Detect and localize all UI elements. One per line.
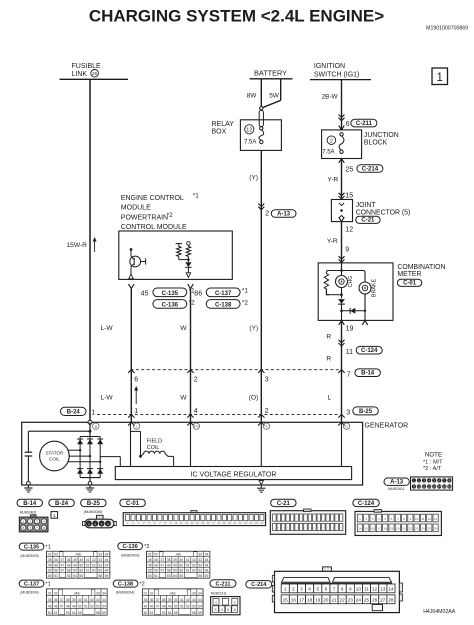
connector drawing A-13 (411, 477, 453, 490)
svg-text:25: 25 (364, 598, 370, 603)
ground rectifier (88, 481, 92, 485)
svg-text:46: 46 (150, 604, 154, 608)
svg-text:C-124: C-124 (361, 348, 378, 354)
stator coil (40, 441, 70, 471)
svg-text:*2: *2 (167, 212, 173, 219)
svg-text:4: 4 (194, 408, 198, 415)
svg-text:MU802611: MU802611 (388, 487, 404, 491)
svg-text:58: 58 (167, 569, 171, 573)
svg-text:50: 50 (144, 611, 148, 615)
svg-text:BATTERY: BATTERY (254, 69, 287, 78)
svg-text:5: 5 (316, 587, 319, 592)
svg-text:35: 35 (48, 558, 52, 562)
svg-text:55: 55 (78, 611, 82, 615)
svg-text:JUNCTION: JUNCTION (364, 132, 399, 139)
svg-text:C-211: C-211 (356, 121, 373, 127)
svg-text:47: 47 (60, 604, 64, 608)
svg-text:35: 35 (144, 598, 148, 602)
svg-text:36: 36 (154, 558, 158, 562)
connector drawing B-24 ring terminal (51, 512, 58, 519)
svg-text:G: G (345, 425, 348, 429)
page number box 1 (432, 68, 448, 85)
BRAKE warning lamp (364, 276, 366, 282)
svg-text:33: 33 (98, 553, 102, 557)
svg-text:*2: *2 (139, 582, 144, 588)
svg-text:JAE: JAE (175, 553, 182, 557)
svg-text:17: 17 (377, 527, 381, 531)
svg-text:ENGINE CONTROL: ENGINE CONTROL (121, 195, 184, 202)
svg-text:59: 59 (73, 569, 77, 573)
svg-text:*1: *1 (45, 582, 50, 588)
svg-text:59: 59 (205, 574, 209, 578)
svg-text:51: 51 (186, 563, 190, 567)
svg-text:13: 13 (380, 587, 386, 592)
svg-text:(Y): (Y) (249, 325, 258, 332)
svg-text:12: 12 (372, 587, 378, 592)
svg-text:15W-R: 15W-R (67, 242, 88, 249)
svg-text:22: 22 (409, 527, 413, 531)
terminal letters (93, 423, 99, 429)
svg-text:C-136: C-136 (162, 302, 179, 308)
svg-text:49: 49 (168, 604, 172, 608)
direction arrow up on L-W wire (135, 388, 137, 405)
svg-text:2B-W: 2B-W (322, 94, 339, 101)
svg-text:02: 02 (154, 553, 158, 557)
svg-text:FR: FR (194, 425, 199, 429)
svg-text:B-25: B-25 (359, 409, 373, 415)
ECM pin 45 exit terminal (129, 274, 134, 279)
svg-text:57: 57 (60, 569, 64, 573)
svg-text:41: 41 (84, 598, 88, 602)
svg-text:METER: METER (397, 271, 421, 278)
svg-text:49: 49 (73, 563, 77, 567)
svg-text:C-21: C-21 (361, 218, 375, 224)
svg-text:53: 53 (162, 611, 166, 615)
svg-text:13: 13 (434, 517, 438, 521)
svg-text:53: 53 (67, 574, 71, 578)
svg-text:01: 01 (144, 591, 148, 595)
svg-text:86: 86 (194, 290, 202, 297)
svg-text:51: 51 (154, 574, 158, 578)
svg-text:55: 55 (179, 574, 183, 578)
svg-text:15: 15 (345, 193, 353, 200)
svg-text:49: 49 (173, 563, 177, 567)
svg-text:61: 61 (86, 569, 90, 573)
svg-text:C-137: C-137 (215, 291, 232, 297)
svg-text:49: 49 (72, 604, 76, 608)
svg-text:JAE: JAE (74, 591, 81, 595)
direction arrow up on 15W-R wire (94, 239, 96, 253)
svg-text:56: 56 (54, 569, 58, 573)
svg-text:36: 36 (150, 598, 154, 602)
svg-text:41: 41 (186, 558, 190, 562)
svg-text:(O): (O) (249, 395, 259, 402)
svg-text:11: 11 (364, 587, 369, 592)
svg-text:21: 21 (402, 527, 406, 531)
svg-text:JOINT: JOINT (356, 202, 377, 209)
svg-text:*2: *2 (144, 544, 149, 550)
svg-text:53: 53 (98, 563, 102, 567)
svg-text:C-135: C-135 (162, 291, 179, 297)
svg-text:C-138: C-138 (118, 581, 133, 587)
svg-text:34: 34 (102, 591, 106, 595)
svg-text:64: 64 (105, 569, 109, 573)
svg-text:54: 54 (102, 604, 106, 608)
connector label C-138 (113, 580, 138, 587)
svg-text:8W: 8W (247, 93, 258, 100)
svg-text:46: 46 (154, 563, 158, 567)
ground capacitor (27, 481, 31, 485)
pin 25 connector C-214 (339, 159, 345, 164)
svg-text:24: 24 (421, 527, 425, 531)
svg-text:4: 4 (308, 587, 311, 592)
junction block (322, 130, 362, 159)
connector drawing C-136 (147, 551, 210, 578)
svg-text:21: 21 (331, 598, 337, 603)
svg-text:52: 52 (92, 563, 96, 567)
wire relay box to generator S terminal (260, 150, 262, 422)
svg-text:35: 35 (148, 558, 152, 562)
svg-text:COMBINATION: COMBINATION (397, 264, 445, 271)
svg-text:47: 47 (156, 604, 160, 608)
svg-text:36: 36 (54, 558, 58, 562)
svg-text:37: 37 (160, 558, 164, 562)
svg-text:STATOR: STATOR (45, 451, 64, 456)
svg-text:B-14: B-14 (361, 371, 375, 377)
svg-text:51: 51 (86, 563, 90, 567)
relay box (240, 120, 281, 151)
svg-text:1: 1 (215, 601, 217, 605)
svg-text:63: 63 (98, 569, 102, 573)
svg-text:33: 33 (192, 591, 196, 595)
svg-text:33: 33 (198, 553, 202, 557)
svg-text:2: 2 (330, 139, 333, 145)
svg-text:01: 01 (48, 553, 52, 557)
svg-text:53: 53 (167, 574, 171, 578)
resistor pair in ECM (176, 243, 182, 245)
connector drawing C-211 (211, 597, 240, 615)
svg-text:54: 54 (173, 574, 177, 578)
IC voltage regulator box (115, 467, 351, 480)
svg-text:45: 45 (144, 604, 148, 608)
svg-text:5: 5 (227, 608, 229, 612)
svg-text:CONTROL MODULE: CONTROL MODULE (121, 224, 187, 231)
svg-text:10: 10 (417, 485, 421, 489)
svg-text:54: 54 (205, 563, 209, 567)
connector drawing C-138 (143, 589, 203, 615)
connector label B-25 (81, 499, 107, 506)
svg-text:NOTE: NOTE (425, 451, 442, 458)
ECM pin 86 exit terminal (186, 273, 191, 278)
svg-text:53: 53 (192, 604, 196, 608)
svg-text:B-24: B-24 (55, 501, 69, 507)
svg-text:02: 02 (54, 591, 58, 595)
svg-text:37: 37 (156, 598, 160, 602)
svg-text:37: 37 (60, 598, 64, 602)
connector drawing B-25 (97, 515, 104, 519)
svg-text:44: 44 (205, 558, 209, 562)
svg-text:47: 47 (160, 563, 164, 567)
dashed harness line upper (131, 369, 342, 371)
svg-text:58: 58 (198, 574, 202, 578)
pin 12 (339, 217, 345, 222)
svg-text:54: 54 (73, 574, 77, 578)
svg-text:2: 2 (265, 210, 269, 217)
svg-text:A-13: A-13 (277, 212, 291, 218)
svg-text:(MU803004): (MU803004) (20, 590, 38, 594)
svg-text:10: 10 (356, 587, 362, 592)
svg-text:42: 42 (186, 598, 190, 602)
svg-text:3: 3 (215, 608, 217, 612)
svg-text:SWITCH (IG1): SWITCH (IG1) (314, 71, 360, 78)
svg-text:40: 40 (79, 558, 83, 562)
svg-text:19: 19 (346, 325, 354, 332)
wire meter to generator L terminal (341, 320, 343, 422)
connector drawing C-214 (323, 567, 332, 572)
fuse 2 (7.5A) in junction block (327, 136, 336, 145)
svg-text:25: 25 (346, 167, 354, 174)
svg-text:59: 59 (105, 574, 109, 578)
connector drawing C-01 (191, 511, 197, 513)
diode in meter (horizontal, pointing left) (342, 310, 366, 312)
svg-text:23: 23 (415, 527, 419, 531)
svg-text:14: 14 (438, 485, 442, 489)
svg-text:43: 43 (198, 558, 202, 562)
svg-text:1: 1 (91, 409, 95, 416)
svg-text:MODULE: MODULE (121, 205, 151, 212)
svg-text:50: 50 (79, 563, 83, 567)
svg-text:51: 51 (180, 604, 184, 608)
svg-text:6: 6 (234, 608, 236, 612)
svg-text:C-211: C-211 (216, 581, 231, 587)
svg-text:40: 40 (78, 598, 82, 602)
wire FR terminal to regulator (190, 422, 192, 466)
svg-text:C-135: C-135 (24, 544, 39, 550)
svg-text:IGNITION: IGNITION (314, 63, 345, 70)
svg-text:59: 59 (102, 611, 106, 615)
svg-text:CHG: CHG (348, 276, 354, 288)
svg-text:18: 18 (307, 598, 313, 603)
svg-text:24: 24 (356, 598, 362, 603)
svg-text:63: 63 (198, 569, 202, 573)
svg-text:Y-R: Y-R (327, 238, 338, 245)
svg-text:18: 18 (384, 527, 388, 531)
pin 6 connector C-211 (339, 115, 345, 118)
svg-text:43: 43 (98, 558, 102, 562)
ECM box (119, 231, 233, 279)
svg-text:15: 15 (443, 485, 447, 489)
wire ECM 86 to generator FR terminal (190, 289, 192, 423)
svg-text:55: 55 (79, 574, 83, 578)
svg-text:MU801311: MU801311 (211, 591, 227, 595)
svg-text:CONNECTOR (5): CONNECTOR (5) (356, 210, 411, 217)
capacitor branch wire (28, 430, 90, 432)
svg-text:36: 36 (54, 598, 58, 602)
svg-text:(MU803046): (MU803046) (84, 510, 103, 514)
field coil (130, 422, 132, 466)
svg-text:58: 58 (192, 611, 196, 615)
svg-text:13: 13 (433, 485, 437, 489)
wire fusible-link to generator B terminal (89, 79, 91, 422)
battery bus bar (250, 78, 293, 80)
svg-text:1: 1 (53, 513, 56, 519)
svg-text:W: W (180, 325, 187, 332)
svg-text:52: 52 (90, 604, 94, 608)
svg-text:28: 28 (388, 598, 394, 603)
regulator ground (260, 480, 262, 481)
svg-text:2: 2 (194, 377, 198, 384)
svg-text:38: 38 (67, 558, 71, 562)
svg-text:3: 3 (300, 587, 303, 592)
wire ignition to junction block (341, 80, 343, 130)
svg-text:POWERTRAIN: POWERTRAIN (121, 215, 168, 222)
svg-text:10: 10 (415, 517, 419, 521)
svg-text:45: 45 (48, 563, 52, 567)
svg-text:C-21: C-21 (277, 501, 291, 507)
svg-text:64: 64 (205, 569, 209, 573)
svg-text:26: 26 (92, 71, 97, 76)
svg-text:W: W (180, 395, 187, 402)
crossing 11 (C-124) (339, 340, 345, 343)
svg-text:44: 44 (198, 598, 202, 602)
svg-text:6: 6 (134, 377, 138, 384)
svg-text:11: 11 (423, 485, 426, 489)
svg-text:COIL: COIL (49, 457, 60, 462)
svg-text:C-138: C-138 (215, 302, 232, 308)
connector label B-14 (17, 499, 43, 506)
svg-text:L: L (328, 395, 332, 402)
svg-text:9: 9 (345, 246, 349, 253)
svg-text:47: 47 (60, 563, 64, 567)
svg-text:5W: 5W (269, 93, 280, 100)
svg-text:45: 45 (48, 604, 52, 608)
ignition bus bar (310, 79, 371, 81)
svg-text:BLOCK: BLOCK (364, 140, 388, 147)
connector label B-24 (49, 499, 75, 506)
svg-text:7.5A: 7.5A (322, 150, 334, 156)
svg-text:1: 1 (436, 72, 442, 84)
svg-text:60: 60 (179, 569, 183, 573)
svg-text:46: 46 (54, 604, 58, 608)
svg-text:41: 41 (86, 558, 90, 562)
svg-text:62: 62 (192, 569, 196, 573)
svg-text:JAE: JAE (75, 553, 82, 557)
svg-text:57: 57 (160, 569, 164, 573)
svg-text:CHARGING SYSTEM <2.4L ENGINE>: CHARGING SYSTEM <2.4L ENGINE> (89, 7, 384, 26)
terminal B junction (88, 420, 92, 424)
svg-text:53: 53 (96, 604, 100, 608)
svg-text:54: 54 (72, 611, 76, 615)
svg-text:*2 : A/T: *2 : A/T (423, 466, 442, 472)
svg-text:7.5A: 7.5A (244, 139, 256, 145)
svg-text:6: 6 (346, 121, 350, 128)
svg-text:COIL: COIL (147, 445, 160, 451)
wire 5W (280, 79, 282, 101)
svg-text:59: 59 (173, 569, 177, 573)
svg-text:FUSIBLE: FUSIBLE (72, 63, 102, 70)
svg-text:59: 59 (198, 611, 202, 615)
junction of 8W and 5W wires (260, 107, 263, 110)
svg-text:27: 27 (380, 598, 386, 603)
svg-text:*1: *1 (242, 288, 248, 295)
svg-text:C-01: C-01 (126, 501, 140, 507)
svg-text:35: 35 (48, 598, 52, 602)
svg-text:17: 17 (299, 598, 305, 603)
connector label B-24 pin 1 (61, 407, 87, 415)
svg-text:38: 38 (167, 558, 171, 562)
connector label C-01 (120, 499, 146, 506)
svg-text:BRAKE: BRAKE (371, 278, 377, 297)
svg-text:IC VOLTAGE REGULATOR: IC VOLTAGE REGULATOR (191, 471, 277, 478)
svg-text:55: 55 (174, 611, 178, 615)
svg-text:51: 51 (150, 611, 154, 615)
svg-text:46: 46 (54, 563, 58, 567)
svg-text:(MU803003): (MU803003) (20, 554, 38, 558)
svg-text:7: 7 (333, 587, 336, 592)
svg-text:48: 48 (162, 604, 166, 608)
svg-text:48: 48 (67, 563, 71, 567)
svg-text:42: 42 (92, 558, 96, 562)
svg-text:33: 33 (96, 591, 100, 595)
bridge ground stem (89, 478, 91, 484)
svg-text:43: 43 (96, 598, 100, 602)
svg-text:53: 53 (198, 563, 202, 567)
svg-text:52: 52 (192, 563, 196, 567)
svg-text:40: 40 (179, 558, 183, 562)
svg-text:C-214: C-214 (251, 582, 267, 588)
svg-text:1: 1 (134, 408, 138, 415)
svg-text:12: 12 (428, 517, 432, 521)
svg-text:61: 61 (186, 569, 190, 573)
svg-text:(MU803004): (MU803004) (116, 590, 134, 594)
svg-text:14: 14 (358, 527, 362, 531)
svg-text:34: 34 (105, 553, 109, 557)
svg-text:15: 15 (283, 598, 289, 603)
connector drawing C-137 (47, 589, 107, 615)
svg-text:(Y): (Y) (249, 175, 258, 182)
connector label C-21 (271, 499, 297, 506)
svg-text:H4J04M02AA: H4J04M02AA (423, 609, 456, 615)
svg-text:50: 50 (179, 563, 183, 567)
svg-text:56: 56 (154, 569, 158, 573)
svg-text:01: 01 (48, 591, 52, 595)
crossing 7 (B-14) (338, 370, 344, 373)
svg-text:C-124: C-124 (358, 501, 375, 507)
svg-text:50: 50 (148, 574, 152, 578)
svg-text:23: 23 (348, 598, 354, 603)
fusible link bus bar (60, 78, 129, 80)
svg-text:50: 50 (48, 611, 52, 615)
crossing pin 3 on relay wire (258, 370, 264, 373)
ECM pin 86 labels (188, 284, 194, 289)
svg-text:15: 15 (365, 527, 369, 531)
svg-text:44: 44 (105, 558, 109, 562)
svg-text:54: 54 (198, 604, 202, 608)
connector label C-124 (353, 499, 380, 506)
svg-text:38: 38 (66, 598, 70, 602)
svg-text:3: 3 (346, 409, 350, 416)
svg-text:1: 1 (284, 587, 287, 592)
svg-text:60: 60 (79, 569, 83, 573)
wire 8W (260, 79, 262, 107)
svg-text:BOX: BOX (212, 128, 227, 135)
transistor in ECM (130, 248, 133, 251)
connector drawing C-124 (355, 511, 441, 535)
svg-text:50: 50 (174, 604, 178, 608)
svg-text:48: 48 (167, 563, 171, 567)
svg-text:11: 11 (346, 349, 353, 356)
dashed harness line lower (97, 413, 340, 415)
